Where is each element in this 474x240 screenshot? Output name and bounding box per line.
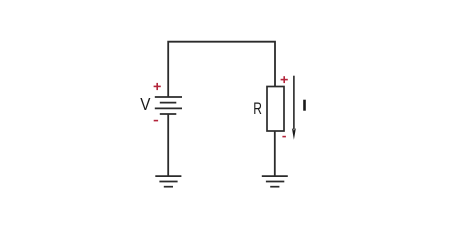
svg-text:R: R — [253, 100, 262, 118]
svg-text:V: V — [140, 94, 151, 114]
